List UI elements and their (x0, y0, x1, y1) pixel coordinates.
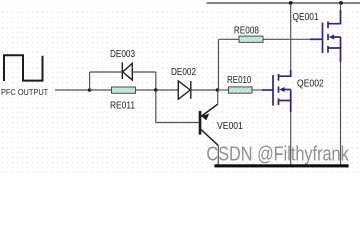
square wave PFC source symbol (4, 55, 43, 81)
arrow QE001 body (329, 35, 335, 40)
diode DE003 (pointing left) (122, 62, 132, 80)
wire main horizontal from source to node A1 (55, 89, 90, 91)
svg-text:PFC OUTPUT: PFC OUTPUT (1, 87, 48, 97)
resistor RE008 (239, 36, 263, 42)
node B junction (216, 88, 220, 92)
resistor RE011 (112, 87, 136, 93)
svg-text:CSDN @Filthyfrank: CSDN @Filthyfrank (206, 142, 349, 165)
svg-text:RE010: RE010 (227, 74, 251, 85)
watermark underline bar (214, 164, 348, 167)
wire RE008 left (219, 38, 240, 40)
wire DE003 right leg (155, 72, 157, 90)
wire QE001 drain stub to rail (340, 3, 342, 11)
wire VE001 base L (down from node A2, right to base) (156, 90, 199, 123)
node A2 junction (154, 88, 158, 92)
wire VE001 collector down to rail (217, 146, 219, 167)
svg-text:QE001: QE001 (293, 11, 319, 23)
wire DE003 top right segment (133, 71, 156, 73)
transistor VE001 (PNP) (200, 104, 218, 145)
wire QE002 drain vertical (290, 3, 292, 70)
svg-text:RE011: RE011 (110, 100, 135, 112)
node QE001 drain on rail (339, 1, 343, 5)
wire DE003 left leg (89, 72, 91, 90)
svg-text:DE003: DE003 (110, 47, 135, 59)
svg-text:DE002: DE002 (171, 65, 196, 77)
wire RE011 right to node A2 (136, 89, 179, 91)
svg-text:QE002: QE002 (297, 78, 324, 90)
svg-text:RE008: RE008 (234, 23, 259, 35)
arrow QE002 body (279, 87, 285, 92)
wire DE002 cathode to node B (191, 89, 218, 91)
node QE002 drain on rail (289, 1, 293, 5)
wire QE002 source vertical to rail (290, 112, 292, 166)
wire QE001 source vertical to rail (340, 62, 342, 166)
diode DE002 (pointing right) (178, 81, 191, 99)
svg-text:VE001: VE001 (217, 120, 243, 132)
node A1 junction (88, 88, 92, 92)
wire node B to RE010 (218, 89, 229, 91)
wire RE011 left (90, 89, 112, 91)
top rail wire (207, 2, 360, 4)
wire DE003 top left segment (90, 71, 122, 73)
resistor RE010 (229, 87, 253, 93)
mosfet QE001 (N-channel, navy) (310, 10, 341, 62)
wire VE001 emitter up to node B (217, 90, 219, 104)
wire RE010 right to QE002 gate (252, 89, 262, 91)
wire node B up to RE008 row (218, 39, 220, 90)
mosfet QE002 (N-channel, navy) (262, 70, 291, 112)
wire RE008 right to QE001 gate (263, 38, 310, 40)
